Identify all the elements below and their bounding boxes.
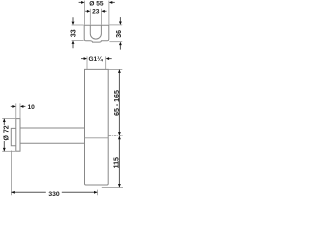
extension lines for 23 dimension	[90, 9, 101, 25]
extension lines for Ø72 dimension	[2, 119, 15, 152]
dimension Ø55 arrows	[79, 1, 115, 4]
U-shaped pipe cutout in escutcheon	[90, 25, 101, 39]
wall plate escutcheon (side view)	[16, 119, 20, 152]
pipe axis centerline (dash-dot)	[109, 135, 123, 137]
svg-text:36: 36	[116, 30, 123, 38]
extension lines for 33 dimension	[72, 25, 84, 41]
extension lines for 10 dimension	[16, 103, 20, 118]
svg-text:330: 330	[48, 191, 60, 198]
extension lines for Ø55 dimension	[85, 1, 109, 25]
dimension 33 arrows (left side, vertical)	[72, 17, 75, 48]
extension lines for G1 1/4 thread dimension	[87, 56, 106, 69]
horizontal outlet pipe top edge	[20, 127, 85, 129]
svg-text:115: 115	[114, 157, 121, 168]
extension line at body top for 65-165 dimension	[109, 68, 123, 70]
dimension 36 arrows (right side, vertical)	[119, 17, 122, 50]
dimension 10 arrows	[11, 105, 26, 108]
svg-text:Ø 72: Ø 72	[3, 125, 10, 140]
trap body sleeve (side view cylinder)	[85, 69, 109, 185]
dimension 115 line and arrows	[118, 136, 121, 188]
dimension 65-165 line and arrows	[118, 70, 121, 136]
wall-side pipe stub	[11, 128, 16, 145]
svg-text:10: 10	[28, 104, 36, 111]
svg-text:Ø 55: Ø 55	[89, 0, 104, 7]
escutcheon front view outline (top view of wall rosette)	[84, 25, 109, 42]
left extension line for 330 dimension (wall face)	[10, 151, 12, 196]
svg-text:23: 23	[92, 9, 100, 16]
svg-text:33: 33	[70, 29, 77, 37]
svg-text:65 - 165: 65 - 165	[114, 90, 121, 116]
horizontal outlet pipe bottom edge	[20, 142, 85, 144]
dimension 330 line and arrows	[11, 191, 97, 194]
bottom extension line for 115 dimension	[102, 186, 123, 188]
svg-text:G1¼: G1¼	[88, 55, 103, 63]
dimension 23 arrows	[85, 10, 106, 13]
dimension Ø72 line and arrows	[3, 119, 6, 152]
right extension line for 330 dimension (trap axis)	[96, 190, 98, 196]
extension lines for 36 dimension	[109, 25, 122, 42]
body seam joint line	[85, 137, 109, 139]
dimension G1 1/4 arrows	[81, 57, 112, 60]
